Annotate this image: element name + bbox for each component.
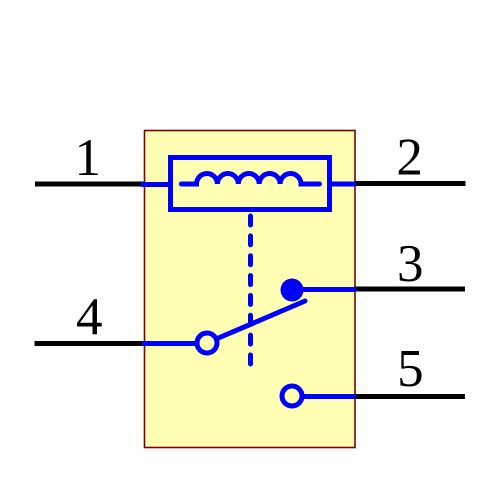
wire pin 4 — [35, 341, 145, 346]
inductor L1 coil — [181, 174, 319, 184]
wire blue pin4 stub — [142, 341, 196, 346]
svg-text:2: 2 — [396, 129, 423, 187]
wire pin 1 — [35, 182, 144, 187]
svg-text:5: 5 — [397, 340, 424, 398]
switch lever — [209, 301, 305, 342]
relay body K1 — [145, 131, 356, 448]
contact pin 5 (open) — [282, 386, 302, 406]
contact pin 4 common (open) — [197, 333, 217, 353]
wire pin 3 — [355, 287, 465, 292]
wire blue pin3 stub — [298, 287, 356, 292]
svg-text:4: 4 — [76, 288, 103, 346]
wire pin 5 — [355, 394, 465, 399]
wire blue pin5 stub — [303, 394, 356, 399]
wire pin 2 — [355, 181, 466, 186]
wire blue pin2 stub — [330, 182, 356, 187]
coil box — [171, 158, 330, 210]
wire blue pin1 stub — [141, 182, 170, 187]
contact pin 3 (filled) — [281, 279, 304, 302]
svg-text:3: 3 — [397, 235, 424, 293]
dashed actuator line — [248, 216, 253, 365]
svg-text:1: 1 — [75, 129, 102, 187]
